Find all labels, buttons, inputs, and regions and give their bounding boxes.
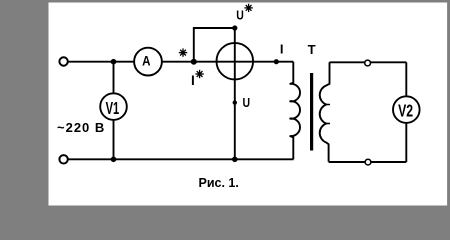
svg-text:I: I xyxy=(191,73,195,88)
wire bottom main line xyxy=(67,158,294,160)
voltmeter V1 xyxy=(100,93,127,120)
svg-text:U: U xyxy=(243,95,251,111)
transformer T primary winding xyxy=(290,62,300,160)
wire secondary bottom xyxy=(329,161,407,163)
node hook corner dot xyxy=(232,25,237,30)
terminal bottom-left xyxy=(59,155,67,163)
transformer secondary cusp ticks xyxy=(326,105,330,124)
svg-text:T: T xyxy=(308,42,316,57)
node V1 top junction xyxy=(111,59,117,65)
svg-text:V1: V1 xyxy=(106,98,120,118)
wire wattmeter voltage hook xyxy=(194,28,235,62)
wattmeter W xyxy=(217,43,254,80)
wire secondary top xyxy=(330,61,407,63)
wire wattmeter voltage coil vertical xyxy=(234,28,236,159)
svg-text:U: U xyxy=(236,7,244,23)
svg-text:~220 В: ~220 В xyxy=(57,120,105,135)
transformer T secondary winding xyxy=(320,62,330,162)
wire top main line xyxy=(67,61,293,63)
node V1 bottom junction xyxy=(111,157,117,163)
voltmeter V2 xyxy=(393,96,420,123)
node current output junction xyxy=(274,59,279,64)
wire V1 branch xyxy=(113,62,115,160)
label star polarity mark current coil xyxy=(179,48,187,56)
terminal top-left xyxy=(59,57,67,65)
terminal secondary bottom xyxy=(365,159,371,165)
ammeter A xyxy=(134,48,162,76)
svg-text:A: A xyxy=(142,52,150,68)
svg-text:I: I xyxy=(280,41,284,56)
node U tap dot xyxy=(233,100,237,104)
transformer T core xyxy=(310,73,313,151)
svg-text:V2: V2 xyxy=(398,101,413,121)
svg-text:Рис. 1.: Рис. 1. xyxy=(199,176,239,190)
wire V2 vertical xyxy=(405,62,407,162)
terminal secondary top xyxy=(365,60,371,66)
node wattmeter voltage tap junction xyxy=(191,59,197,65)
node wattmeter bottom junction xyxy=(232,157,238,163)
